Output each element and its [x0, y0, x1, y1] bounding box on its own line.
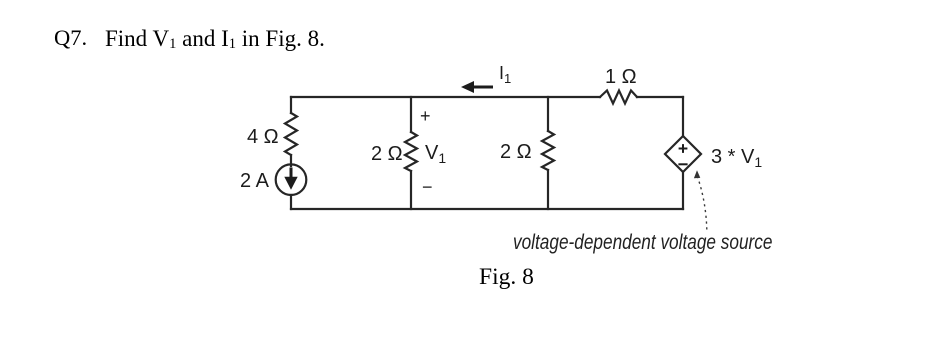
figure caption [479, 266, 534, 290]
svg-text:V1: V1 [425, 142, 446, 166]
svg-text:−: − [422, 177, 433, 197]
svg-text:2 A: 2 A [240, 170, 270, 192]
wire branch3 bottom [547, 170, 549, 209]
resistor 2Ω (branch 2, vertical) [405, 132, 417, 171]
wire branch2 top [410, 97, 412, 132]
wire top right: 1Ω to right branch corner [637, 96, 683, 98]
svg-text:1 Ω: 1 Ω [605, 66, 637, 88]
resistor 2Ω (branch 3, vertical) [542, 131, 554, 170]
svg-text:2 Ω: 2 Ω [500, 141, 532, 163]
resistor 4Ω (left, vertical) [285, 113, 297, 155]
wire right branch bottom [682, 172, 684, 209]
wire left branch top [290, 97, 292, 113]
svg-text:I1: I1 [499, 63, 511, 86]
wire bottom [291, 208, 683, 210]
wire current source to bottom [290, 195, 292, 209]
wire top: node A to node B [291, 96, 600, 98]
current source 2A (circle) [276, 164, 307, 195]
dependent voltage source 3*V1 (diamond) [665, 136, 701, 172]
plus sign inside diamond [678, 144, 687, 164]
resistor 1Ω (top, horizontal) [600, 91, 637, 104]
arrow inside current source [284, 168, 297, 190]
wire 4Ω to current source [290, 155, 292, 166]
annotation arrowhead [694, 170, 700, 178]
wire branch3 top [547, 97, 549, 131]
dashed annotation arrow [698, 178, 707, 230]
annotation text [513, 232, 772, 253]
svg-text:4 Ω: 4 Ω [247, 126, 279, 148]
svg-text:3 * V1: 3 * V1 [711, 146, 762, 170]
title text [54, 27, 87, 50]
minus sign inside diamond [678, 163, 687, 165]
wire right branch top [682, 97, 684, 136]
current arrow I1 [461, 81, 493, 93]
svg-text:+: + [420, 106, 431, 126]
svg-text:2 Ω: 2 Ω [371, 143, 403, 165]
wire branch2 bottom [410, 171, 412, 209]
